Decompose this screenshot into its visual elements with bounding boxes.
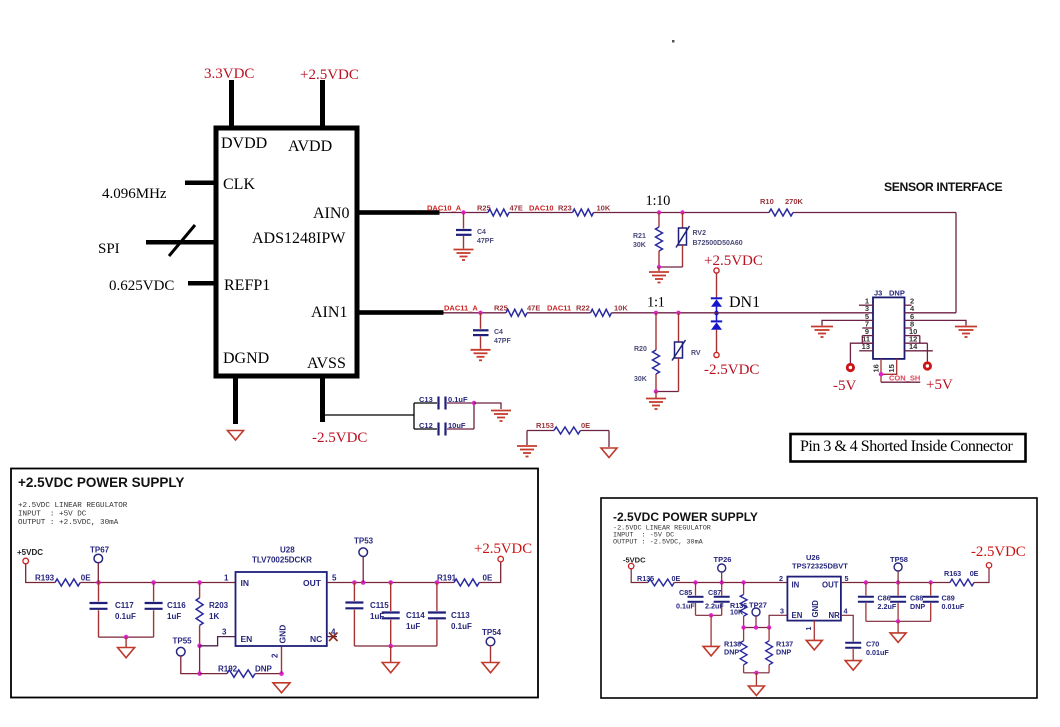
note regulator description	[613, 525, 711, 547]
node junction R203	[197, 580, 202, 585]
svg-text:OUTPUT : -2.5VDC, 30mA: OUTPUT : -2.5VDC, 30mA	[613, 539, 704, 547]
svg-text:0E: 0E	[672, 574, 681, 583]
wire R20 ground stub	[655, 392, 657, 399]
node -2.5VDC port circle	[986, 563, 991, 568]
svg-text:DAC10: DAC10	[529, 204, 554, 213]
pin numbers right	[909, 297, 918, 352]
resistor R22	[576, 304, 628, 317]
svg-text:TP26: TP26	[714, 555, 732, 564]
svg-text:16: 16	[872, 364, 881, 372]
svg-text:0.01uF: 0.01uF	[866, 648, 889, 657]
capacitor C113	[428, 583, 472, 647]
wire bus to ground	[897, 621, 899, 632]
frame +2.5VDC power supply box	[11, 469, 538, 698]
ground triangle R153	[601, 448, 617, 458]
svg-text:B72500D50A60: B72500D50A60	[693, 240, 743, 247]
svg-text:R20: R20	[634, 346, 647, 353]
node junction C85	[693, 580, 697, 584]
svg-text:270K: 270K	[785, 197, 804, 206]
varistor RV	[672, 313, 701, 392]
svg-text:10K: 10K	[614, 304, 628, 313]
ground earth C13	[491, 411, 511, 422]
svg-text:OUTPUT : +2.5VDC, 30mA: OUTPUT : +2.5VDC, 30mA	[18, 519, 119, 527]
wire AIN0 pin	[357, 210, 440, 215]
wire SPI bus pin	[146, 240, 216, 245]
wire R138/R137 bottom bus	[744, 672, 770, 674]
wire EN bus	[744, 615, 788, 627]
frame -2.5VDC power supply box	[601, 498, 1037, 698]
node -5V jack	[846, 363, 855, 372]
ground triangle R138/R137	[748, 686, 764, 696]
node junction DNP ground	[754, 671, 758, 675]
wire AVDD power pin	[320, 80, 325, 128]
svg-text:R153: R153	[536, 421, 554, 430]
svg-text:DAC11: DAC11	[547, 304, 571, 313]
diode DN1 upper	[711, 298, 722, 311]
wire C115/C114/C113 bottom bus	[354, 645, 437, 647]
svg-text:TP55: TP55	[173, 637, 193, 646]
wire C85/C87 bottom bus	[696, 614, 722, 616]
node junction DN1	[714, 311, 719, 316]
svg-text:C12: C12	[419, 421, 433, 430]
node junction C13 out	[472, 401, 476, 405]
diode DN1 lower	[711, 315, 722, 330]
svg-text:TP54: TP54	[482, 628, 502, 637]
resistor R163	[944, 569, 979, 586]
wire R191 to +2.5VDC port	[479, 562, 501, 583]
svg-text:4.096MHz: 4.096MHz	[102, 186, 167, 202]
node junction R21 top	[657, 210, 661, 214]
svg-text:AIN1: AIN1	[311, 304, 347, 321]
wire DGND pin	[233, 376, 238, 424]
pin numbers left	[862, 297, 870, 352]
node junction TP53	[361, 580, 366, 585]
wire pin5 to left ground	[822, 320, 873, 325]
wire R10 down right side	[955, 213, 957, 313]
testpoint TP58	[890, 555, 908, 583]
svg-text:SPI: SPI	[98, 241, 120, 257]
svg-text:-5VDC: -5VDC	[623, 556, 646, 565]
ground triangle C117/C116	[118, 648, 135, 658]
wire pin15 down	[883, 359, 897, 375]
svg-text:DNP: DNP	[255, 665, 273, 674]
testpoint TP27	[749, 601, 767, 628]
testpoint TP67	[90, 546, 110, 583]
wire net DAC11 row	[444, 312, 874, 314]
svg-text:DGND: DGND	[223, 350, 269, 367]
node junction output ground	[388, 644, 393, 649]
svg-text:2: 2	[779, 574, 783, 583]
svg-text:TLV70025DCKR: TLV70025DCKR	[252, 556, 312, 565]
wire CON_SH stub	[881, 381, 920, 383]
svg-text:C117: C117	[115, 601, 134, 610]
svg-text:U28: U28	[280, 546, 295, 555]
wire AVSS to C13/C12	[323, 414, 415, 416]
wire C13/C12 left bus	[413, 403, 415, 429]
svg-text:R203: R203	[209, 601, 229, 610]
svg-text:+5VDC: +5VDC	[17, 548, 43, 557]
node -5VDC port circle	[629, 563, 634, 568]
svg-text:10K: 10K	[597, 204, 611, 213]
resistor R153	[527, 421, 609, 434]
node junction R192 left	[197, 671, 202, 676]
wire pin16 down	[880, 359, 882, 383]
capacitor C88	[890, 583, 925, 622]
wire SPI bus slash	[169, 225, 195, 256]
svg-text:C114: C114	[406, 611, 425, 620]
node junction RV top	[676, 311, 680, 315]
node junction EN	[197, 644, 202, 649]
resistor R25 (AIN1)	[494, 304, 540, 317]
svg-text:2.2uF: 2.2uF	[878, 602, 897, 611]
svg-text:3: 3	[222, 628, 227, 637]
wire C86/C88/C89 bottom bus	[866, 620, 931, 622]
svg-text:R25: R25	[494, 304, 508, 313]
ground DGND open triangle	[228, 431, 244, 441]
svg-text:0E: 0E	[81, 574, 91, 583]
svg-text:DN1: DN1	[729, 294, 760, 311]
svg-text:R191: R191	[437, 574, 457, 583]
node junction ground bus	[124, 635, 129, 640]
svg-text:C116: C116	[167, 601, 186, 610]
svg-text:IN: IN	[792, 581, 800, 590]
svg-text:AVDD: AVDD	[288, 138, 332, 155]
node -2.5VDC port circle	[714, 352, 719, 357]
svg-text:R22: R22	[576, 304, 590, 313]
svg-text:-2.5VDC: -2.5VDC	[704, 362, 759, 378]
node +2.5VDC port circle	[498, 556, 504, 562]
svg-text:NC: NC	[310, 634, 322, 644]
testpoint TP53	[354, 537, 374, 583]
svg-text:2: 2	[271, 653, 280, 658]
svg-text:+2.5VDC: +2.5VDC	[300, 67, 359, 83]
svg-text:1uF: 1uF	[167, 612, 181, 621]
node junction GND pin	[279, 671, 284, 676]
wire bus to ground	[710, 615, 712, 646]
connector right pin stubs	[905, 305, 933, 351]
node junction EN left	[741, 625, 745, 629]
svg-text:AIN0: AIN0	[313, 205, 349, 222]
connector left pin stubs	[859, 305, 873, 351]
svg-text:+5V: +5V	[926, 377, 953, 393]
svg-text:EN: EN	[792, 611, 803, 620]
ground earth R153	[517, 446, 537, 457]
node junction TP67/C117	[96, 580, 101, 585]
svg-text:GND: GND	[278, 625, 288, 644]
wire R163 to -2.5VDC port	[974, 568, 989, 583]
svg-text:RV2: RV2	[693, 230, 707, 237]
node +5VDC port circle	[23, 558, 29, 564]
ground triangle output caps	[382, 663, 399, 673]
svg-text:1:1: 1:1	[647, 295, 665, 311]
svg-text:+2.5VDC POWER SUPPLY: +2.5VDC POWER SUPPLY	[18, 475, 184, 490]
svg-text:4: 4	[844, 606, 848, 615]
wire OUT rail	[327, 582, 454, 584]
svg-text:OUT: OUT	[303, 578, 322, 588]
svg-text:C113: C113	[451, 611, 470, 620]
wire pin12 to +5V jack	[926, 343, 928, 361]
resistor R193	[35, 574, 91, 587]
wire +5VDC to rail	[26, 564, 55, 583]
ground triangle U28 GND	[273, 683, 290, 693]
regulator U28 body	[236, 546, 327, 647]
wire pin4 to R10 drop	[905, 312, 957, 314]
ground triangle U26 GND	[806, 640, 822, 650]
svg-text:+2.5VDC: +2.5VDC	[704, 253, 763, 269]
wire C117/C116 bottom bus	[99, 636, 154, 638]
svg-text:IN: IN	[241, 578, 250, 588]
svg-text:Pin 3 & 4 Shorted Inside Conne: Pin 3 & 4 Shorted Inside Connector	[800, 438, 1013, 455]
svg-text:C87: C87	[708, 588, 721, 597]
wire OUT rail	[841, 582, 950, 584]
wire AVSS pin	[320, 376, 325, 422]
svg-text:0.1uF: 0.1uF	[448, 395, 468, 404]
testpoint TP26	[714, 555, 732, 583]
svg-text:5: 5	[845, 574, 849, 583]
wire REFP1 pin	[188, 281, 216, 286]
resistor R136 10K vertical	[730, 583, 747, 628]
varistor RV2	[676, 213, 743, 268]
svg-text:47PF: 47PF	[477, 238, 494, 245]
svg-text:DNP: DNP	[910, 602, 925, 611]
resistor R138 DNP vertical	[724, 628, 747, 673]
node junction pin16	[879, 372, 884, 377]
svg-text:+2.5VDC: +2.5VDC	[474, 541, 532, 557]
capacitor C86	[858, 583, 897, 622]
svg-text:DNP: DNP	[776, 648, 791, 657]
svg-text:DAC11_A: DAC11_A	[444, 304, 478, 313]
capacitor C70	[845, 640, 889, 661]
wire GND pin 1	[813, 621, 815, 640]
wire bus to ground	[125, 637, 127, 647]
capacitor C87	[705, 583, 730, 616]
svg-text:-2.5VDC POWER SUPPLY: -2.5VDC POWER SUPPLY	[613, 510, 758, 524]
capacitor C117	[90, 583, 137, 638]
svg-text:10K: 10K	[730, 608, 744, 617]
node junction EN TP27	[754, 625, 758, 629]
node junction R20 bottom	[654, 389, 658, 393]
resistor R20 30K vertical	[634, 313, 660, 392]
svg-text:CON_SH: CON_SH	[889, 374, 920, 383]
svg-text:DVDD: DVDD	[221, 135, 267, 152]
svg-text:0E: 0E	[483, 574, 493, 583]
op-amp U1 main IC ADS1248IPW body	[216, 128, 357, 376]
svg-text:2.2uF: 2.2uF	[705, 602, 724, 611]
resistor R21 30K vertical	[633, 213, 663, 268]
capacitor C116	[145, 583, 187, 638]
node +5V jack	[923, 361, 932, 370]
resistor R137 DNP vertical	[766, 628, 793, 673]
svg-text:0E: 0E	[581, 421, 590, 430]
wire R21/RV2 bottom	[659, 266, 683, 268]
svg-text:EN: EN	[241, 634, 253, 644]
svg-text:14: 14	[909, 342, 918, 351]
ground earth left of J3	[811, 327, 833, 338]
ground triangle C70	[845, 661, 861, 671]
ground earth R20	[646, 399, 666, 410]
svg-text:1uF: 1uF	[406, 622, 420, 631]
svg-text:47E: 47E	[510, 204, 523, 213]
svg-text:+2.5VDC LINEAR REGULATOR: +2.5VDC LINEAR REGULATOR	[18, 502, 128, 510]
node junction C88/TP58	[896, 580, 900, 584]
node junction R136	[741, 580, 745, 584]
svg-text:DAC10_A: DAC10_A	[427, 204, 462, 213]
wire R153 right down	[608, 431, 610, 448]
node junction C116	[151, 580, 156, 585]
node junction output ground	[896, 619, 900, 623]
svg-text:C13: C13	[419, 395, 433, 404]
note regulator description	[18, 502, 128, 527]
svg-text:AVSS: AVSS	[307, 355, 346, 372]
svg-text:10uF: 10uF	[448, 421, 466, 430]
svg-text:NR: NR	[829, 611, 841, 620]
node junction C113	[435, 580, 440, 585]
node junction C4b	[478, 311, 482, 315]
wire down to ground	[658, 267, 660, 271]
wire bus to ground	[390, 646, 392, 662]
stray dot	[672, 40, 675, 43]
capacitor C4 (AIN0)	[456, 213, 494, 249]
svg-text:DNP: DNP	[724, 648, 739, 657]
testpoint TP55	[173, 637, 200, 674]
svg-text:0.1uF: 0.1uF	[115, 612, 136, 621]
testpoint TP54	[482, 628, 502, 662]
wire bus to ground	[755, 673, 757, 686]
resistor R10 270K	[760, 197, 804, 216]
wire net DAC10 row	[440, 212, 957, 214]
resistor R135	[637, 574, 680, 586]
svg-text:GND: GND	[811, 600, 820, 618]
svg-text:-2.5VDC: -2.5VDC	[312, 430, 367, 446]
svg-text:1: 1	[804, 627, 813, 631]
svg-text:J3: J3	[874, 289, 882, 298]
svg-text:1:10: 1:10	[646, 193, 671, 209]
svg-text:R23: R23	[558, 204, 572, 213]
wire EN step	[200, 637, 236, 646]
svg-text:1K: 1K	[209, 612, 219, 621]
node junction R20 top	[654, 311, 658, 315]
node junction C86	[864, 580, 868, 584]
svg-text:0.1uF: 0.1uF	[451, 622, 472, 631]
svg-text:0E: 0E	[970, 569, 979, 578]
svg-text:0.01uF: 0.01uF	[942, 602, 965, 611]
wire DN1 to -2.5VDC	[716, 330, 718, 353]
wire pin6 to right ground	[905, 320, 967, 325]
regulator U26 body	[787, 553, 848, 621]
resistor R192 DNP	[200, 665, 282, 678]
svg-text:1: 1	[224, 574, 229, 583]
ground earth R21	[649, 272, 669, 283]
capacitor C115	[345, 583, 389, 647]
wire to ground from C13	[474, 403, 501, 409]
svg-text:R193: R193	[35, 574, 55, 583]
wire GND pin 2	[281, 646, 283, 674]
ground triangle TP54	[482, 663, 499, 673]
node junction EN right	[767, 625, 771, 629]
NC pin no-connect X	[327, 633, 338, 642]
wire C13/C12 right bus	[473, 403, 475, 429]
svg-text:-5V: -5V	[833, 378, 856, 394]
resistor R203 1K vertical	[196, 583, 229, 646]
ground earth C4b	[471, 350, 491, 361]
capacitor C13	[414, 395, 474, 410]
wire EN junction down	[199, 646, 201, 674]
node junction C87/TP26	[720, 580, 724, 584]
svg-text:OUT: OUT	[822, 581, 839, 590]
node junction input ground	[709, 613, 713, 617]
svg-text:47E: 47E	[527, 304, 540, 313]
svg-text:30K: 30K	[634, 376, 647, 383]
svg-text:3.3VDC: 3.3VDC	[204, 66, 254, 82]
wire rail R193 to IC	[80, 582, 235, 584]
svg-text:SENSOR INTERFACE: SENSOR INTERFACE	[884, 180, 1003, 194]
svg-text:ADS1248IPW: ADS1248IPW	[252, 230, 346, 247]
connector J3 body	[873, 289, 905, 359]
wire NR pin to C70	[841, 615, 853, 641]
svg-text:3: 3	[780, 606, 784, 615]
svg-text:REFP1: REFP1	[224, 277, 270, 294]
svg-text:DNP: DNP	[889, 289, 905, 298]
svg-text:C4: C4	[494, 329, 503, 336]
svg-text:R10: R10	[760, 197, 774, 206]
svg-text:0.625VDC: 0.625VDC	[109, 278, 174, 294]
ground triangle C85/C87	[703, 646, 719, 656]
ground earth C4a	[454, 250, 474, 261]
node +2.5VDC port circle	[714, 268, 719, 273]
svg-text:C85: C85	[679, 588, 692, 597]
capacitor C114	[382, 583, 426, 647]
capacitor C89	[923, 583, 965, 622]
wire R153 left down	[526, 431, 528, 446]
svg-text:15: 15	[887, 364, 896, 372]
svg-text:R163: R163	[944, 569, 961, 578]
resistor R25 (AIN0)	[477, 204, 523, 217]
node junction C4a	[461, 210, 465, 214]
node junction R21 bottom	[657, 265, 661, 269]
node junction C114	[388, 580, 393, 585]
wire pin9-pin11 bridge	[861, 336, 863, 344]
svg-text:C115: C115	[370, 601, 389, 610]
svg-text:5: 5	[332, 574, 337, 583]
svg-text:R21: R21	[633, 233, 646, 240]
wire pin11 to -5V jack	[850, 343, 873, 363]
svg-text:CLK: CLK	[223, 176, 255, 193]
capacitor C4 (AIN1)	[473, 313, 511, 349]
ground earth right of J3	[955, 327, 977, 338]
svg-text:C4: C4	[477, 229, 486, 236]
svg-text:TP67: TP67	[90, 546, 110, 555]
capacitor C85	[676, 583, 704, 616]
svg-text:RV: RV	[691, 350, 701, 357]
wire DVDD power pin	[229, 80, 234, 128]
note box Pin 3 & 4	[791, 434, 1026, 462]
svg-text:0.1uF: 0.1uF	[676, 602, 695, 611]
node junction RV2 top	[680, 210, 684, 214]
node junction C89	[929, 580, 933, 584]
wire pin10-pin12 bridge	[919, 336, 921, 344]
svg-text:TPS72325DBVT: TPS72325DBVT	[792, 562, 848, 571]
svg-text:30K: 30K	[633, 242, 646, 249]
svg-text:INPUT : +5V DC: INPUT : +5V DC	[18, 511, 87, 519]
wire -5VDC to rail	[631, 569, 648, 583]
svg-text:TP53: TP53	[354, 537, 374, 546]
capacitor C12	[414, 421, 474, 436]
svg-text:47PF: 47PF	[494, 338, 511, 345]
wire +2.5VDC to DN1	[716, 273, 718, 298]
wire rail R135 to IC	[674, 582, 787, 584]
wire CLK pin	[185, 181, 216, 186]
wire AIN1 pin	[357, 310, 444, 315]
